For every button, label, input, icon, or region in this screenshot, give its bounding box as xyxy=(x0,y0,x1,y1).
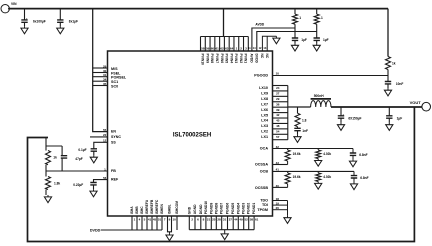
svg-text:PVIN3: PVIN3 xyxy=(234,54,238,64)
resistor 1 ohm DVDD filter xyxy=(316,9,318,15)
wire divider top node xyxy=(46,145,62,147)
svg-text:35: 35 xyxy=(103,82,107,86)
wire OCSSB xyxy=(273,186,288,188)
svg-text:10nF: 10nF xyxy=(396,82,403,86)
svg-text:29: 29 xyxy=(276,97,280,101)
svg-text:PVIN10: PVIN10 xyxy=(201,54,205,66)
svg-text:1.8: 1.8 xyxy=(302,118,307,122)
svg-text:42: 42 xyxy=(276,145,280,149)
svg-text:ISHREFB: ISHREFB xyxy=(150,199,154,214)
svg-text:52: 52 xyxy=(245,218,249,222)
svg-text:61: 61 xyxy=(255,218,259,222)
svg-text:ISHA: ISHA xyxy=(130,206,134,214)
svg-text:20: 20 xyxy=(276,206,280,210)
svg-text:6.8nF: 6.8nF xyxy=(359,153,367,157)
svg-text:PGND10: PGND10 xyxy=(204,201,208,214)
svg-text:ISHCOM: ISHCOM xyxy=(175,201,179,214)
svg-text:27: 27 xyxy=(276,92,280,96)
ground xyxy=(287,216,289,218)
wire NC pin 2 xyxy=(266,36,268,51)
ground xyxy=(224,232,226,234)
svg-text:DVDD: DVDD xyxy=(90,228,101,232)
ground xyxy=(317,182,319,184)
svg-text:29: 29 xyxy=(103,64,107,68)
wire riser VIN to PVIN bus xyxy=(223,9,225,37)
wire xyxy=(45,165,47,171)
wire PVIN bus xyxy=(201,36,249,38)
svg-text:OCSSB: OCSSB xyxy=(255,186,268,190)
svg-text:25: 25 xyxy=(212,218,216,222)
wire bottom-right bus xyxy=(189,229,254,231)
ground xyxy=(353,182,355,184)
svg-text:19: 19 xyxy=(276,201,280,205)
svg-text:8x1µF: 8x1µF xyxy=(69,20,78,24)
wire NC pins tie xyxy=(262,36,276,51)
svg-text:6x100µF: 6x100µF xyxy=(33,20,46,24)
wire DVDD xyxy=(257,32,317,52)
ground xyxy=(47,195,49,197)
resistor 4.02k OCA xyxy=(317,149,319,151)
svg-text:FB: FB xyxy=(111,169,116,173)
wire xyxy=(353,178,355,182)
svg-text:40: 40 xyxy=(276,184,280,188)
ground xyxy=(388,123,390,125)
svg-text:LX8: LX8 xyxy=(261,97,268,101)
svg-text:PVIN6: PVIN6 xyxy=(220,54,224,64)
svg-text:DGND: DGND xyxy=(199,204,203,214)
resistor 1.8k feedback bottom xyxy=(45,171,47,177)
ground xyxy=(169,233,171,235)
capacitor 47pF feedforward xyxy=(61,146,63,156)
svg-text:LX6: LX6 xyxy=(261,108,268,112)
resistor 1k PGOOD pullup xyxy=(387,9,389,57)
wire TPGM xyxy=(273,209,288,211)
svg-text:58: 58 xyxy=(201,47,205,51)
resistor 4.02k OCB xyxy=(317,171,319,173)
svg-text:AVDD: AVDD xyxy=(250,54,254,64)
svg-text:PVIN7: PVIN7 xyxy=(215,54,219,64)
wire TDI xyxy=(273,204,288,206)
svg-text:PVIN8: PVIN8 xyxy=(210,54,214,64)
svg-text:21: 21 xyxy=(207,218,211,222)
svg-text:1µF: 1µF xyxy=(397,116,403,120)
svg-text:63: 63 xyxy=(225,47,229,51)
svg-text:61: 61 xyxy=(216,47,220,51)
svg-text:PVIN2: PVIN2 xyxy=(239,54,243,64)
svg-text:PGND1: PGND1 xyxy=(252,203,256,215)
svg-text:58: 58 xyxy=(250,218,254,222)
config pin ladder xyxy=(93,67,108,69)
capacitor 1nF snubber xyxy=(294,128,300,130)
svg-text:57: 57 xyxy=(276,135,280,139)
svg-text:1k: 1k xyxy=(53,155,57,159)
svg-text:43: 43 xyxy=(276,161,280,165)
ground NC xyxy=(275,36,277,38)
resistor 19.6k OCA xyxy=(287,149,289,151)
capacitor 6.8nF OCA xyxy=(352,149,354,154)
resistor 19.6k OCB xyxy=(287,171,289,173)
svg-text:1: 1 xyxy=(299,16,301,20)
svg-text:M/S: M/S xyxy=(111,67,118,71)
svg-text:18: 18 xyxy=(276,197,280,201)
ground xyxy=(24,26,26,28)
svg-text:TDI: TDI xyxy=(262,203,268,207)
wire xyxy=(45,190,47,196)
capacitor 6.8nF OCB xyxy=(353,171,355,175)
capacitor 1uF AVDD xyxy=(292,38,298,40)
wire VIN rail xyxy=(8,8,388,10)
wire xyxy=(287,161,289,165)
wire xyxy=(340,107,342,116)
svg-text:VOUT: VOUT xyxy=(410,100,422,105)
svg-text:NC: NC xyxy=(265,54,269,59)
capacitor 8x1uF input ceramic xyxy=(57,20,63,22)
wire xyxy=(388,118,390,123)
wire xyxy=(316,24,318,38)
svg-text:1k: 1k xyxy=(392,61,396,65)
svg-text:ISL70002SEH: ISL70002SEH xyxy=(173,132,211,138)
svg-text:12: 12 xyxy=(103,139,107,143)
svg-text:41: 41 xyxy=(276,168,280,172)
svg-text:PVIN9: PVIN9 xyxy=(206,54,210,64)
svg-text:45: 45 xyxy=(276,119,280,123)
capacitor 6x100uF input bulk xyxy=(21,20,27,22)
svg-text:REF: REF xyxy=(111,178,119,182)
wire FB xyxy=(46,170,108,172)
wire xyxy=(387,76,389,82)
svg-text:19.6k: 19.6k xyxy=(293,175,301,179)
svg-text:1µF: 1µF xyxy=(323,38,329,42)
svg-text:39: 39 xyxy=(276,108,280,112)
capacitor 6X150uF output bulk xyxy=(338,116,344,118)
svg-text:ISHEN: ISHEN xyxy=(160,204,164,215)
svg-text:PVIN4: PVIN4 xyxy=(229,54,233,64)
wire VOUT sense loop xyxy=(28,107,415,242)
svg-text:PGND7: PGND7 xyxy=(220,203,224,215)
wire xyxy=(387,70,389,76)
svg-text:0.22µF: 0.22µF xyxy=(73,183,83,187)
svg-text:19.6k: 19.6k xyxy=(293,152,301,156)
svg-text:EN: EN xyxy=(111,130,116,134)
svg-text:10: 10 xyxy=(276,72,280,76)
bottom right pin group xyxy=(188,216,190,230)
VOUT terminal xyxy=(422,102,431,111)
svg-text:62: 62 xyxy=(220,47,224,51)
svg-text:DVDD: DVDD xyxy=(255,54,259,64)
wire xyxy=(24,22,26,26)
resistor 1k feedback top xyxy=(46,151,51,165)
svg-text:PGND5: PGND5 xyxy=(231,203,235,215)
capacitor 0.22uF REF xyxy=(90,183,96,185)
wire xyxy=(224,230,226,232)
svg-text:10: 10 xyxy=(173,218,177,222)
wire xyxy=(59,22,61,26)
capacitor 1uF DVDD xyxy=(314,38,320,40)
svg-text:51: 51 xyxy=(158,218,162,222)
capacitor 1uF output ceramic xyxy=(386,116,392,118)
svg-text:1.8k: 1.8k xyxy=(54,181,60,185)
wire AVDD xyxy=(252,28,295,51)
svg-text:LX10: LX10 xyxy=(259,86,268,90)
wire SS xyxy=(94,142,108,149)
op IC U1 ISL70002SEH body xyxy=(108,51,273,216)
svg-text:VIN: VIN xyxy=(11,2,17,6)
svg-text:1: 1 xyxy=(321,16,323,20)
svg-text:1nF: 1nF xyxy=(302,129,308,133)
resistor 1 ohm AVDD filter xyxy=(294,9,296,15)
svg-text:ISHC: ISHC xyxy=(140,206,144,214)
svg-text:37: 37 xyxy=(229,218,233,222)
wire xyxy=(340,118,342,123)
wire OCSSA xyxy=(273,164,288,166)
wire PGOOD xyxy=(273,75,389,77)
svg-text:LX9: LX9 xyxy=(261,92,268,96)
wire xyxy=(93,151,95,155)
capacitor 10nF PGOOD xyxy=(385,82,391,84)
svg-text:ISHBL: ISHBL xyxy=(168,204,172,214)
svg-text:PGND8: PGND8 xyxy=(214,203,218,215)
ground xyxy=(59,26,61,28)
svg-text:PGND4: PGND4 xyxy=(236,203,240,215)
wire LX bus xyxy=(287,86,289,140)
wire xyxy=(61,158,63,171)
svg-text:ISHREFA: ISHREFA xyxy=(145,199,149,214)
ground xyxy=(297,135,299,137)
wire xyxy=(387,84,389,88)
svg-text:LX7: LX7 xyxy=(261,102,268,106)
svg-text:PVIN1: PVIN1 xyxy=(244,54,248,64)
svg-text:48: 48 xyxy=(276,124,280,128)
svg-text:TPGM: TPGM xyxy=(257,208,268,212)
svg-text:LX4: LX4 xyxy=(261,119,269,123)
svg-text:PGND2: PGND2 xyxy=(247,203,251,215)
ground xyxy=(294,43,296,45)
svg-text:GND: GND xyxy=(187,206,191,214)
wire xyxy=(59,9,61,20)
wire xyxy=(24,9,26,20)
svg-text:6.8nF: 6.8nF xyxy=(360,176,368,180)
wire OCB xyxy=(273,170,355,172)
svg-text:SYNC: SYNC xyxy=(111,135,121,139)
wire OCA xyxy=(273,148,354,150)
svg-text:0.1µF: 0.1µF xyxy=(78,148,86,152)
wire xyxy=(93,185,95,189)
wire config bus VIN to EN xyxy=(93,9,108,132)
svg-text:45: 45 xyxy=(153,218,157,222)
wire xyxy=(352,155,354,159)
svg-text:55: 55 xyxy=(103,128,107,132)
svg-text:4.02k: 4.02k xyxy=(323,152,331,156)
wire TDO xyxy=(273,200,288,202)
svg-text:AGND: AGND xyxy=(193,204,197,214)
svg-text:54: 54 xyxy=(276,129,280,133)
svg-text:59: 59 xyxy=(206,47,210,51)
svg-text:6X150µF: 6X150µF xyxy=(348,116,361,120)
ground xyxy=(340,123,342,125)
svg-text:TDO: TDO xyxy=(260,199,268,203)
svg-text:LX3: LX3 xyxy=(261,124,268,128)
svg-text:49: 49 xyxy=(239,218,243,222)
svg-text:22: 22 xyxy=(103,133,107,137)
svg-text:LX1: LX1 xyxy=(261,135,268,139)
svg-text:31: 31 xyxy=(103,73,107,77)
wire xyxy=(297,127,299,129)
svg-text:56: 56 xyxy=(103,176,107,180)
ground xyxy=(93,189,95,191)
wire VOUT rail xyxy=(331,106,422,108)
svg-text:41: 41 xyxy=(148,218,152,222)
LX pin ladder xyxy=(273,85,288,87)
ground xyxy=(352,159,354,161)
svg-text:OCSSA: OCSSA xyxy=(255,163,268,167)
svg-text:OCA: OCA xyxy=(260,147,269,151)
svg-text:LX5: LX5 xyxy=(261,113,268,117)
wire bottom-left bus xyxy=(101,229,162,231)
svg-text:SS: SS xyxy=(111,140,116,144)
svg-text:LX2: LX2 xyxy=(261,130,268,134)
svg-text:64: 64 xyxy=(230,47,234,51)
ground xyxy=(316,43,318,45)
svg-text:AVDD: AVDD xyxy=(255,23,264,27)
svg-text:1µF: 1µF xyxy=(301,38,307,42)
svg-text:SC0: SC0 xyxy=(111,85,118,89)
wire xyxy=(169,232,171,233)
resistor 1.8 snubber xyxy=(297,107,299,113)
ground xyxy=(387,88,389,90)
svg-text:PGOOD: PGOOD xyxy=(254,73,268,77)
svg-text:500nH: 500nH xyxy=(314,94,325,98)
VIN terminal xyxy=(1,5,9,13)
svg-text:44: 44 xyxy=(234,218,238,222)
svg-text:42: 42 xyxy=(276,113,280,117)
svg-text:4.02k: 4.02k xyxy=(323,175,331,179)
svg-text:ISHB: ISHB xyxy=(135,206,139,214)
svg-text:PGND3: PGND3 xyxy=(242,203,246,215)
svg-text:31: 31 xyxy=(223,218,227,222)
wire stub pin xyxy=(176,216,178,230)
wire JTAG bus xyxy=(287,201,289,216)
top PVIN pin ladder xyxy=(200,37,202,52)
wire LX node xyxy=(288,106,311,108)
wire xyxy=(45,138,47,151)
ground xyxy=(317,159,319,161)
inductor 500nH xyxy=(311,101,331,107)
ground xyxy=(93,155,95,157)
capacitor 0.1uF soft start xyxy=(91,149,97,151)
wire xyxy=(287,184,289,188)
svg-text:OCB: OCB xyxy=(260,170,269,174)
svg-text:PGND6: PGND6 xyxy=(226,203,230,215)
wire xyxy=(388,107,390,116)
svg-text:60: 60 xyxy=(211,47,215,51)
svg-text:36: 36 xyxy=(276,102,280,106)
svg-text:ISHREFC: ISHREFC xyxy=(155,199,159,214)
svg-text:28: 28 xyxy=(217,218,221,222)
wire REF xyxy=(94,180,108,183)
svg-text:PGND9: PGND9 xyxy=(209,203,213,215)
svg-text:PORSEL: PORSEL xyxy=(111,76,127,80)
wire xyxy=(297,131,299,135)
wire xyxy=(294,24,296,38)
bottom left pin group xyxy=(131,216,133,230)
svg-text:47pF: 47pF xyxy=(75,157,82,161)
wire pocket pins xyxy=(168,216,172,232)
svg-text:PVIN5: PVIN5 xyxy=(225,54,229,64)
wire xyxy=(294,40,296,43)
svg-text:NC: NC xyxy=(260,54,264,59)
wire xyxy=(316,40,318,43)
wire SYNC stub xyxy=(90,136,108,138)
svg-text:24: 24 xyxy=(276,86,280,90)
